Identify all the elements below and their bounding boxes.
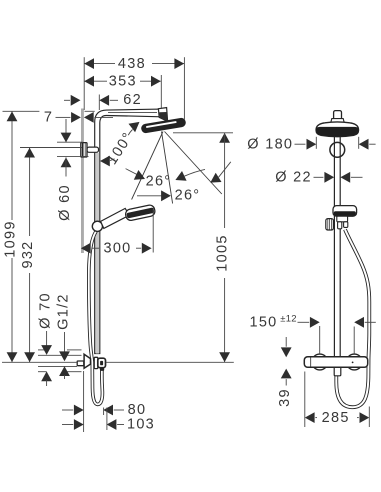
100deg angle label <box>100 122 140 168</box>
ball joint (front view) <box>330 142 345 157</box>
arm stub (front view) <box>331 111 345 124</box>
dimension dia22 <box>275 170 362 186</box>
26deg angle label lower <box>137 162 231 204</box>
extension lines dia180 <box>316 137 358 149</box>
riser pipe and shower arm (left view) <box>95 109 162 353</box>
extension line wall top <box>83 57 85 110</box>
svg-text:Ø 180: Ø 180 <box>247 137 293 153</box>
extension line 80 right <box>103 408 105 416</box>
extension ticks dia70/G1/2 <box>38 350 82 372</box>
extension line 285 left <box>304 372 306 428</box>
slider ball (left view) <box>92 221 102 231</box>
svg-text:Ø 60: Ø 60 <box>57 184 73 221</box>
svg-text:150: 150 <box>249 315 277 331</box>
svg-text:438: 438 <box>118 56 146 72</box>
dimension 285 <box>305 410 370 426</box>
dimension 438 <box>84 56 184 72</box>
supply reference line <box>2 361 234 363</box>
thermostat valve body <box>304 357 367 368</box>
spray line right 43deg <box>165 132 222 195</box>
extension line 932 top <box>20 147 82 149</box>
extension line top 1005 <box>173 132 233 134</box>
extension line 103 right <box>106 408 108 431</box>
hand shower holder (front view) <box>337 216 348 229</box>
svg-text:1005: 1005 <box>214 234 230 271</box>
svg-text:353: 353 <box>109 74 137 90</box>
hand shower head (left view) <box>125 204 156 221</box>
extension line 80/103 left <box>83 371 85 432</box>
hand-shower hose (left view) <box>89 231 103 404</box>
wall (left view, grey) <box>81 109 84 254</box>
wall outlet escutcheon cone (left view) <box>84 354 90 368</box>
svg-text:Ø 70: Ø 70 <box>38 292 54 329</box>
dimension dia60 <box>57 119 73 221</box>
extension line 285 right <box>368 407 370 428</box>
svg-text:26°: 26° <box>146 174 172 190</box>
dimension 1099 <box>2 111 18 362</box>
thermostat handle right <box>346 354 362 370</box>
dimension 353 <box>84 74 161 90</box>
svg-text:1099: 1099 <box>2 220 18 257</box>
extension line 300 right <box>152 209 154 253</box>
dimension dia70 <box>38 292 54 386</box>
dimension 7 <box>44 110 113 126</box>
dimension 39 <box>277 337 293 407</box>
upper wall bracket (left view) <box>81 143 99 157</box>
svg-text:932: 932 <box>20 240 36 268</box>
hose nipple under valve <box>334 367 341 376</box>
dimension 932 <box>20 148 36 362</box>
svg-text:±12: ±12 <box>280 314 296 325</box>
dimension dia180 <box>247 137 375 153</box>
dimension G1/2 <box>56 293 72 379</box>
svg-text:G1/2: G1/2 <box>56 293 72 330</box>
overhead shower head (left side view) <box>141 118 186 133</box>
thermostat handle left <box>312 354 328 370</box>
dimension 1005 <box>214 133 230 362</box>
svg-text:103: 103 <box>127 417 155 433</box>
svg-text:7: 7 <box>44 110 53 126</box>
spray line centre <box>162 132 173 204</box>
hand shower hose (front view) <box>336 230 369 408</box>
hose connection block (left view) <box>98 358 106 371</box>
dimension 150 plus-minus 12 <box>249 314 375 331</box>
dimension 103 <box>62 417 155 433</box>
holder clamp knob (front view) <box>326 219 334 230</box>
svg-text:62: 62 <box>123 92 142 108</box>
outlet G1/2 thread stub (left view) <box>77 361 84 366</box>
spray line left 25deg <box>132 132 163 200</box>
outlet nut (left view) <box>94 357 98 368</box>
svg-text:285: 285 <box>322 410 350 426</box>
extension line 1099 top <box>3 110 95 112</box>
extension line 62 <box>98 95 100 111</box>
svg-text:39: 39 <box>277 388 293 407</box>
extension line 438 right <box>183 57 185 119</box>
26deg angle label upper <box>126 169 205 190</box>
dimension 300 <box>81 240 152 256</box>
svg-text:26°: 26° <box>175 188 201 204</box>
dimension 80 <box>62 402 146 418</box>
overhead shower head (front view) <box>316 122 358 137</box>
arm-head connector nut (left view) <box>158 108 167 122</box>
extension ticks dia60 <box>57 142 89 156</box>
dimension 62 <box>64 92 142 108</box>
riser pipe (front view) <box>334 137 340 357</box>
svg-text:Ø 22: Ø 22 <box>275 170 312 186</box>
extension line 353 right <box>160 75 162 108</box>
hand shower handle (left view) <box>101 208 130 228</box>
extension lines 150 <box>320 326 355 354</box>
svg-text:300: 300 <box>103 240 131 256</box>
hand shower head (front view) <box>333 206 357 217</box>
